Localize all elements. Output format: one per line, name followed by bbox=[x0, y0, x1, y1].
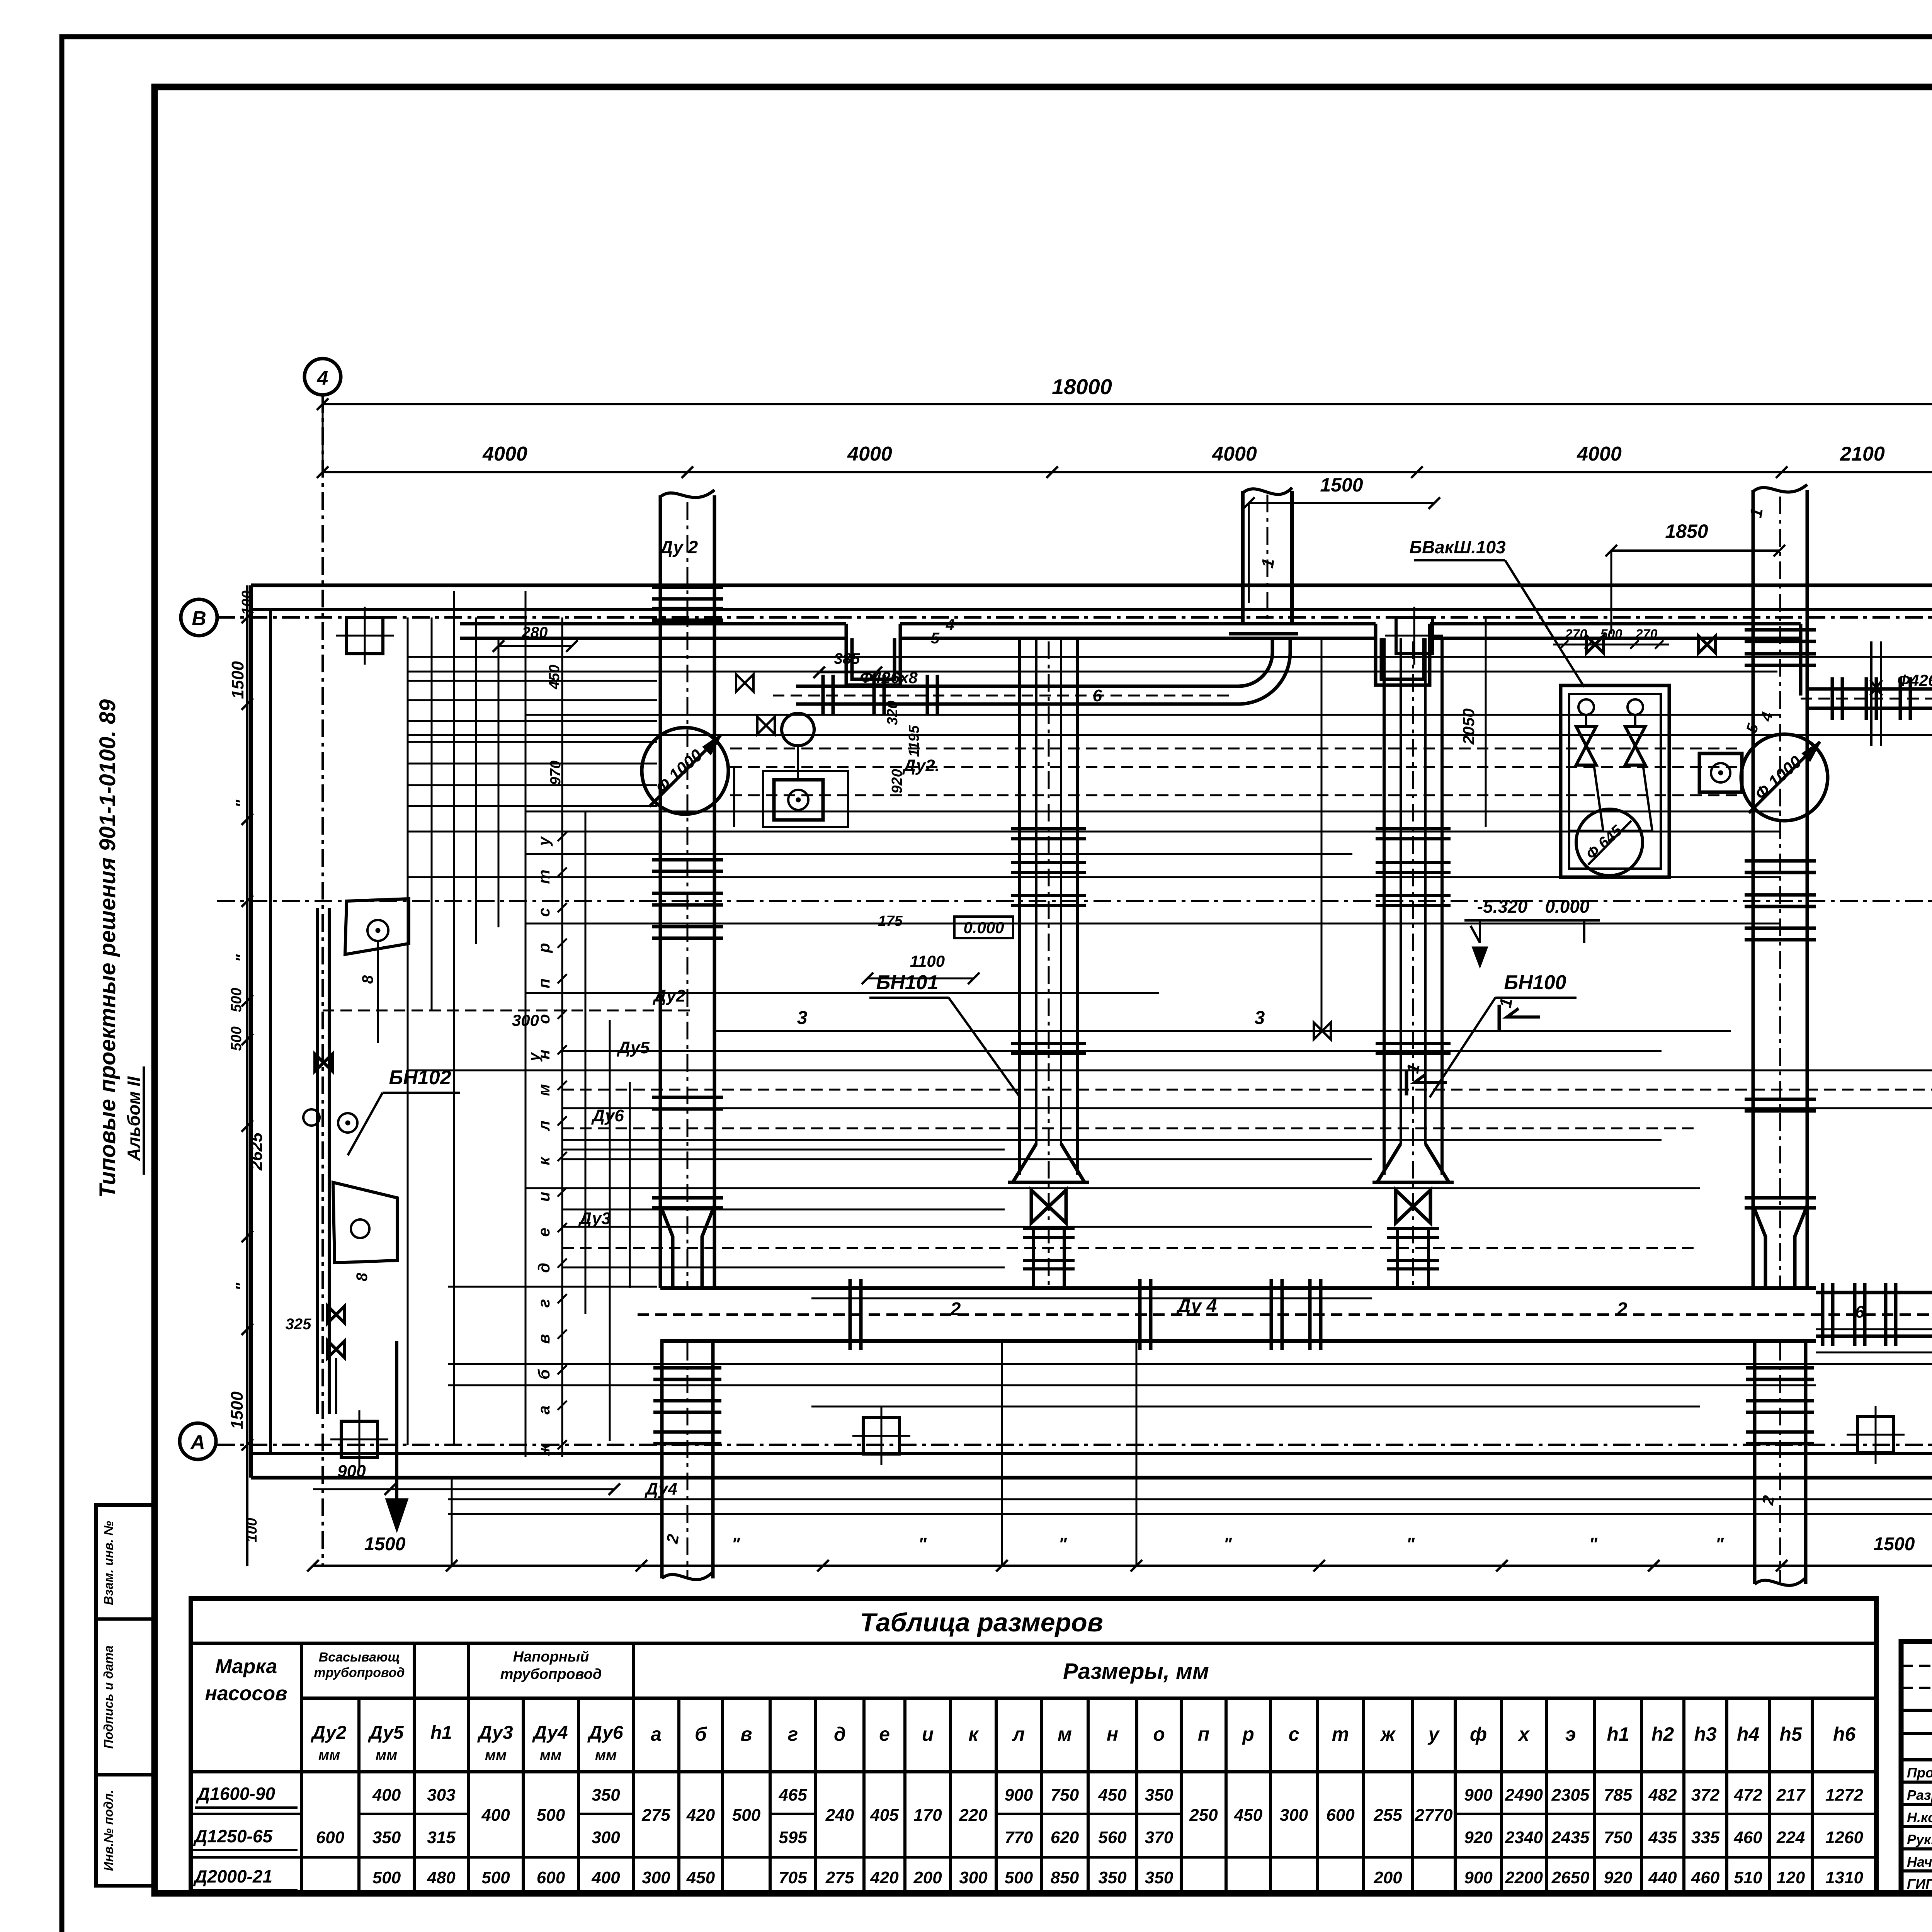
svg-text:400: 400 bbox=[481, 1806, 510, 1825]
svg-text:Всасывающ: Всасывающ bbox=[319, 1650, 400, 1665]
svg-text:Д1600-90: Д1600-90 bbox=[196, 1784, 275, 1804]
svg-text:770: 770 bbox=[1005, 1828, 1033, 1847]
svg-text:303: 303 bbox=[427, 1786, 455, 1804]
svg-text:h1: h1 bbox=[430, 1723, 452, 1743]
svg-text:240: 240 bbox=[825, 1806, 854, 1825]
svg-text:450: 450 bbox=[1098, 1786, 1127, 1804]
svg-text:500: 500 bbox=[372, 1868, 401, 1887]
svg-text:м: м bbox=[535, 1084, 553, 1096]
svg-text:р: р bbox=[1242, 1723, 1254, 1745]
svg-text:372: 372 bbox=[1691, 1786, 1720, 1804]
svg-text:482: 482 bbox=[1648, 1786, 1677, 1804]
svg-text:-5.320: -5.320 bbox=[1477, 896, 1528, 917]
svg-text:Инв.№ подл.: Инв.№ подл. bbox=[101, 1790, 116, 1871]
svg-text:435: 435 bbox=[1648, 1828, 1677, 1847]
svg-text:350: 350 bbox=[592, 1786, 620, 1804]
svg-text:200: 200 bbox=[1373, 1868, 1402, 1887]
svg-text:БН102: БН102 bbox=[389, 1066, 451, 1089]
svg-text:275: 275 bbox=[641, 1806, 670, 1825]
svg-text:Ду2.: Ду2. bbox=[902, 756, 940, 775]
svg-text:2650: 2650 bbox=[1551, 1868, 1590, 1887]
svg-text:100: 100 bbox=[239, 590, 255, 615]
svg-text:А: А bbox=[190, 1431, 205, 1454]
svg-text:х: х bbox=[1517, 1723, 1530, 1745]
svg-text:300: 300 bbox=[592, 1828, 620, 1847]
svg-text:705: 705 bbox=[779, 1868, 807, 1887]
svg-text:370: 370 bbox=[1145, 1828, 1173, 1847]
svg-text:560: 560 bbox=[1098, 1828, 1127, 1847]
svg-text:насосов: насосов bbox=[205, 1682, 287, 1705]
svg-text:э: э bbox=[1565, 1723, 1576, 1745]
svg-text:Напорный: Напорный bbox=[513, 1649, 589, 1665]
svg-text:4000: 4000 bbox=[847, 443, 892, 465]
svg-text:200: 200 bbox=[913, 1868, 942, 1887]
svg-text:": " bbox=[1406, 1534, 1415, 1554]
svg-text:Размеры, мм: Размеры, мм bbox=[1063, 1659, 1209, 1684]
svg-text:315: 315 bbox=[427, 1828, 456, 1847]
svg-text:Ду5: Ду5 bbox=[616, 1038, 650, 1057]
svg-text:1500: 1500 bbox=[1874, 1534, 1915, 1554]
svg-text:2770: 2770 bbox=[1415, 1806, 1453, 1825]
svg-text:5: 5 bbox=[931, 630, 940, 647]
svg-text:4: 4 bbox=[317, 367, 328, 389]
svg-text:465: 465 bbox=[778, 1786, 807, 1804]
svg-text:м: м bbox=[1058, 1723, 1072, 1745]
svg-text:в: в bbox=[535, 1334, 553, 1344]
svg-text:500: 500 bbox=[537, 1806, 565, 1825]
svg-text:920: 920 bbox=[1604, 1868, 1633, 1887]
svg-text:Ду6: Ду6 bbox=[591, 1106, 624, 1125]
svg-text:2490: 2490 bbox=[1505, 1786, 1543, 1804]
svg-text:0.000: 0.000 bbox=[1545, 896, 1590, 917]
svg-text:": " bbox=[1223, 1534, 1232, 1554]
svg-text:300: 300 bbox=[512, 1011, 539, 1029]
svg-text:д: д bbox=[834, 1723, 846, 1745]
svg-text:500: 500 bbox=[228, 1026, 245, 1051]
svg-text:420: 420 bbox=[686, 1806, 715, 1825]
svg-text:270: 270 bbox=[1635, 627, 1658, 641]
svg-text:к: к bbox=[968, 1723, 979, 1745]
svg-text:224: 224 bbox=[1776, 1828, 1805, 1847]
svg-text:Д2000-21: Д2000-21 bbox=[193, 1866, 272, 1886]
svg-text:400: 400 bbox=[591, 1868, 620, 1887]
svg-text:595: 595 bbox=[779, 1828, 807, 1847]
svg-text:": " bbox=[232, 799, 251, 808]
svg-text:300: 300 bbox=[959, 1868, 988, 1887]
svg-text:4000: 4000 bbox=[1577, 443, 1622, 465]
svg-text:6: 6 bbox=[1855, 1303, 1865, 1321]
svg-text:в: в bbox=[740, 1723, 752, 1745]
svg-text:мм: мм bbox=[376, 1747, 397, 1764]
svg-text:": " bbox=[918, 1534, 927, 1554]
svg-text:400: 400 bbox=[372, 1786, 401, 1804]
svg-text:а: а bbox=[535, 1405, 553, 1414]
svg-text:750: 750 bbox=[1604, 1828, 1633, 1847]
svg-text:Пров.: Пров. bbox=[1907, 1765, 1932, 1781]
svg-text:и: и bbox=[922, 1723, 934, 1745]
svg-text:900: 900 bbox=[1464, 1868, 1493, 1887]
svg-text:ж: ж bbox=[1380, 1723, 1396, 1745]
svg-text:2305: 2305 bbox=[1551, 1786, 1590, 1804]
svg-text:Ду2: Ду2 bbox=[652, 986, 685, 1005]
svg-text:Марка: Марка bbox=[215, 1655, 277, 1678]
svg-text:БВакШ.103: БВакШ.103 bbox=[1409, 537, 1506, 557]
svg-text:175: 175 bbox=[878, 913, 903, 929]
svg-text:h5: h5 bbox=[1779, 1723, 1803, 1745]
svg-text:1272: 1272 bbox=[1825, 1786, 1863, 1804]
svg-text:ж: ж bbox=[535, 1443, 553, 1456]
svg-text:920: 920 bbox=[889, 769, 905, 793]
svg-text:h3: h3 bbox=[1694, 1723, 1717, 1745]
svg-text:п: п bbox=[1198, 1723, 1210, 1745]
svg-text:Альбом II: Альбом II bbox=[124, 1076, 144, 1161]
svg-text:500: 500 bbox=[1600, 627, 1622, 641]
svg-text:т: т bbox=[1332, 1723, 1349, 1745]
svg-text:900: 900 bbox=[1005, 1786, 1033, 1804]
svg-text:Ф426х8: Ф426х8 bbox=[860, 668, 918, 687]
svg-text:мм: мм bbox=[485, 1747, 507, 1764]
svg-text:850: 850 bbox=[1051, 1868, 1079, 1887]
svg-text:г: г bbox=[535, 1299, 553, 1308]
svg-text:750: 750 bbox=[1051, 1786, 1079, 1804]
svg-text:Ду 2: Ду 2 bbox=[658, 537, 698, 557]
svg-text:500: 500 bbox=[481, 1868, 510, 1887]
svg-text:2100: 2100 bbox=[1840, 443, 1885, 465]
svg-text:420: 420 bbox=[870, 1868, 899, 1887]
svg-text:т: т bbox=[535, 869, 553, 884]
svg-text:2: 2 bbox=[1617, 1299, 1628, 1320]
svg-text:п: п bbox=[535, 978, 553, 988]
svg-text:8: 8 bbox=[359, 975, 376, 984]
svg-text:1310: 1310 bbox=[1825, 1868, 1863, 1887]
svg-text:1195: 1195 bbox=[906, 725, 922, 757]
svg-text:1260: 1260 bbox=[1825, 1828, 1863, 1847]
svg-text:н: н bbox=[1107, 1723, 1118, 1745]
svg-text:2050: 2050 bbox=[1459, 708, 1478, 745]
svg-text:л: л bbox=[1012, 1723, 1025, 1745]
svg-text:Взам. инв. №: Взам. инв. № bbox=[101, 1521, 116, 1605]
svg-text:900: 900 bbox=[1464, 1786, 1493, 1804]
svg-text:трубопровод: трубопровод bbox=[314, 1665, 405, 1680]
svg-text:БН100: БН100 bbox=[1504, 971, 1566, 994]
svg-text:": " bbox=[232, 954, 251, 962]
svg-text:900: 900 bbox=[337, 1462, 366, 1481]
svg-text:1850: 1850 bbox=[1665, 520, 1708, 542]
svg-text:350: 350 bbox=[1145, 1786, 1173, 1804]
svg-text:Ду3: Ду3 bbox=[477, 1723, 513, 1743]
svg-text:h1: h1 bbox=[1607, 1723, 1629, 1745]
svg-text:Н.контр.: Н.контр. bbox=[1907, 1810, 1932, 1825]
svg-text:е: е bbox=[535, 1228, 553, 1236]
svg-text:Ду6: Ду6 bbox=[587, 1723, 623, 1743]
svg-text:б: б bbox=[695, 1723, 707, 1745]
svg-text:4000: 4000 bbox=[482, 443, 527, 465]
svg-text:970: 970 bbox=[548, 760, 564, 785]
svg-text:h4: h4 bbox=[1737, 1723, 1759, 1745]
svg-text:480: 480 bbox=[427, 1868, 456, 1887]
svg-text:БН101: БН101 bbox=[876, 971, 938, 994]
svg-text:h6: h6 bbox=[1833, 1723, 1856, 1745]
svg-text:Ду4: Ду4 bbox=[532, 1723, 568, 1743]
svg-text:6: 6 bbox=[1093, 686, 1102, 705]
svg-text:Ф426х8: Ф426х8 bbox=[1897, 671, 1932, 689]
svg-text:600: 600 bbox=[316, 1828, 345, 1847]
svg-text:620: 620 bbox=[1051, 1828, 1079, 1847]
svg-text:920: 920 bbox=[1464, 1828, 1493, 1847]
svg-text:трубопровод: трубопровод bbox=[500, 1666, 602, 1682]
svg-text:450: 450 bbox=[1234, 1806, 1263, 1825]
svg-text:510: 510 bbox=[1734, 1868, 1762, 1887]
svg-text:ф: ф bbox=[1470, 1723, 1487, 1745]
svg-text:мм: мм bbox=[595, 1747, 617, 1764]
svg-text:3: 3 bbox=[1255, 1008, 1265, 1028]
svg-text:170: 170 bbox=[913, 1806, 942, 1825]
svg-text:472: 472 bbox=[1733, 1786, 1762, 1804]
svg-text:2625: 2625 bbox=[247, 1133, 266, 1171]
svg-text:2435: 2435 bbox=[1551, 1828, 1590, 1847]
svg-text:785: 785 bbox=[1604, 1786, 1633, 1804]
svg-text:405: 405 bbox=[870, 1806, 899, 1825]
svg-text:450: 450 bbox=[546, 665, 563, 689]
svg-text:1500: 1500 bbox=[364, 1534, 406, 1554]
svg-text:460: 460 bbox=[1691, 1868, 1720, 1887]
svg-text:350: 350 bbox=[372, 1828, 401, 1847]
svg-text:18000: 18000 bbox=[1052, 374, 1112, 399]
svg-text:л: л bbox=[535, 1121, 553, 1131]
svg-text:h2: h2 bbox=[1651, 1723, 1674, 1745]
svg-text:мм: мм bbox=[540, 1747, 561, 1764]
svg-text:Подпись и дата: Подпись и дата bbox=[101, 1645, 116, 1749]
svg-text:Рук.гр.: Рук.гр. bbox=[1907, 1832, 1932, 1847]
svg-text:220: 220 bbox=[959, 1806, 988, 1825]
svg-text:1500: 1500 bbox=[228, 661, 247, 699]
svg-text:460: 460 bbox=[1733, 1828, 1762, 1847]
svg-text:450: 450 bbox=[686, 1868, 715, 1887]
svg-text:о: о bbox=[1153, 1723, 1165, 1745]
svg-text:8: 8 bbox=[354, 1272, 371, 1281]
svg-text:у: у bbox=[1427, 1723, 1440, 1745]
svg-text:255: 255 bbox=[1373, 1806, 1402, 1825]
svg-text:4000: 4000 bbox=[1212, 443, 1257, 465]
svg-text:г: г bbox=[788, 1723, 798, 1745]
svg-text:335: 335 bbox=[1691, 1828, 1720, 1847]
svg-text:350: 350 bbox=[1098, 1868, 1127, 1887]
svg-text:4: 4 bbox=[946, 616, 954, 633]
svg-text:Разраб.: Разраб. bbox=[1907, 1787, 1932, 1803]
svg-text:350: 350 bbox=[1145, 1868, 1173, 1887]
svg-text:Таблица размеров: Таблица размеров bbox=[860, 1608, 1103, 1637]
svg-text:1500: 1500 bbox=[228, 1391, 247, 1429]
svg-text:": " bbox=[1058, 1534, 1067, 1554]
svg-text:": " bbox=[731, 1534, 740, 1554]
svg-text:250: 250 bbox=[1189, 1806, 1218, 1825]
svg-text:500: 500 bbox=[1005, 1868, 1033, 1887]
svg-text:у: у bbox=[526, 1052, 543, 1062]
svg-text:280: 280 bbox=[522, 624, 548, 641]
svg-text:440: 440 bbox=[1648, 1868, 1677, 1887]
svg-text:600: 600 bbox=[1326, 1806, 1355, 1825]
svg-text:Ду5: Ду5 bbox=[367, 1723, 404, 1743]
svg-text:д: д bbox=[535, 1263, 553, 1273]
svg-text:Типовые проектные решения 901-: Типовые проектные решения 901-1-0100. 89 bbox=[95, 699, 120, 1198]
svg-text:ГИП: ГИП bbox=[1907, 1876, 1932, 1892]
svg-text:1500: 1500 bbox=[1320, 474, 1363, 496]
svg-text:600: 600 bbox=[537, 1868, 565, 1887]
svg-text:Ду2: Ду2 bbox=[310, 1723, 347, 1743]
svg-text:р: р bbox=[535, 943, 553, 953]
svg-text:а: а bbox=[651, 1723, 662, 1745]
svg-text:100: 100 bbox=[244, 1518, 260, 1542]
svg-text:325: 325 bbox=[286, 1316, 311, 1333]
svg-text:500: 500 bbox=[732, 1806, 761, 1825]
svg-text:": " bbox=[232, 1282, 251, 1291]
svg-text:б: б bbox=[535, 1369, 553, 1379]
svg-text:мм: мм bbox=[318, 1747, 340, 1764]
svg-text:300: 300 bbox=[1280, 1806, 1308, 1825]
svg-text:270: 270 bbox=[1565, 627, 1587, 641]
svg-text:": " bbox=[1715, 1534, 1724, 1554]
svg-text:Ду 4: Ду 4 bbox=[1176, 1296, 1217, 1316]
svg-text:е: е bbox=[879, 1723, 890, 1745]
svg-text:В: В bbox=[192, 607, 206, 630]
svg-text:1100: 1100 bbox=[910, 952, 945, 970]
svg-text:2200: 2200 bbox=[1505, 1868, 1543, 1887]
svg-text:Нач.отд.: Нач.отд. bbox=[1907, 1854, 1932, 1870]
svg-text:Д1250-65: Д1250-65 bbox=[193, 1826, 273, 1846]
svg-text:": " bbox=[1589, 1534, 1598, 1554]
svg-text:0.000: 0.000 bbox=[963, 918, 1004, 937]
svg-text:217: 217 bbox=[1776, 1786, 1806, 1804]
svg-text:2340: 2340 bbox=[1505, 1828, 1543, 1847]
svg-text:с: с bbox=[535, 908, 553, 917]
svg-text:к: к bbox=[535, 1156, 553, 1165]
svg-text:3: 3 bbox=[797, 1008, 808, 1028]
svg-text:и: и bbox=[535, 1192, 553, 1202]
svg-text:275: 275 bbox=[825, 1868, 854, 1887]
svg-text:120: 120 bbox=[1777, 1868, 1805, 1887]
svg-text:у: у bbox=[535, 836, 553, 847]
svg-text:Ду4: Ду4 bbox=[644, 1480, 677, 1498]
svg-text:500: 500 bbox=[228, 988, 245, 1012]
svg-text:300: 300 bbox=[642, 1868, 670, 1887]
svg-text:Ду3: Ду3 bbox=[578, 1209, 611, 1228]
svg-text:385: 385 bbox=[834, 650, 860, 667]
svg-text:с: с bbox=[1289, 1723, 1299, 1745]
svg-text:2: 2 bbox=[950, 1299, 961, 1320]
